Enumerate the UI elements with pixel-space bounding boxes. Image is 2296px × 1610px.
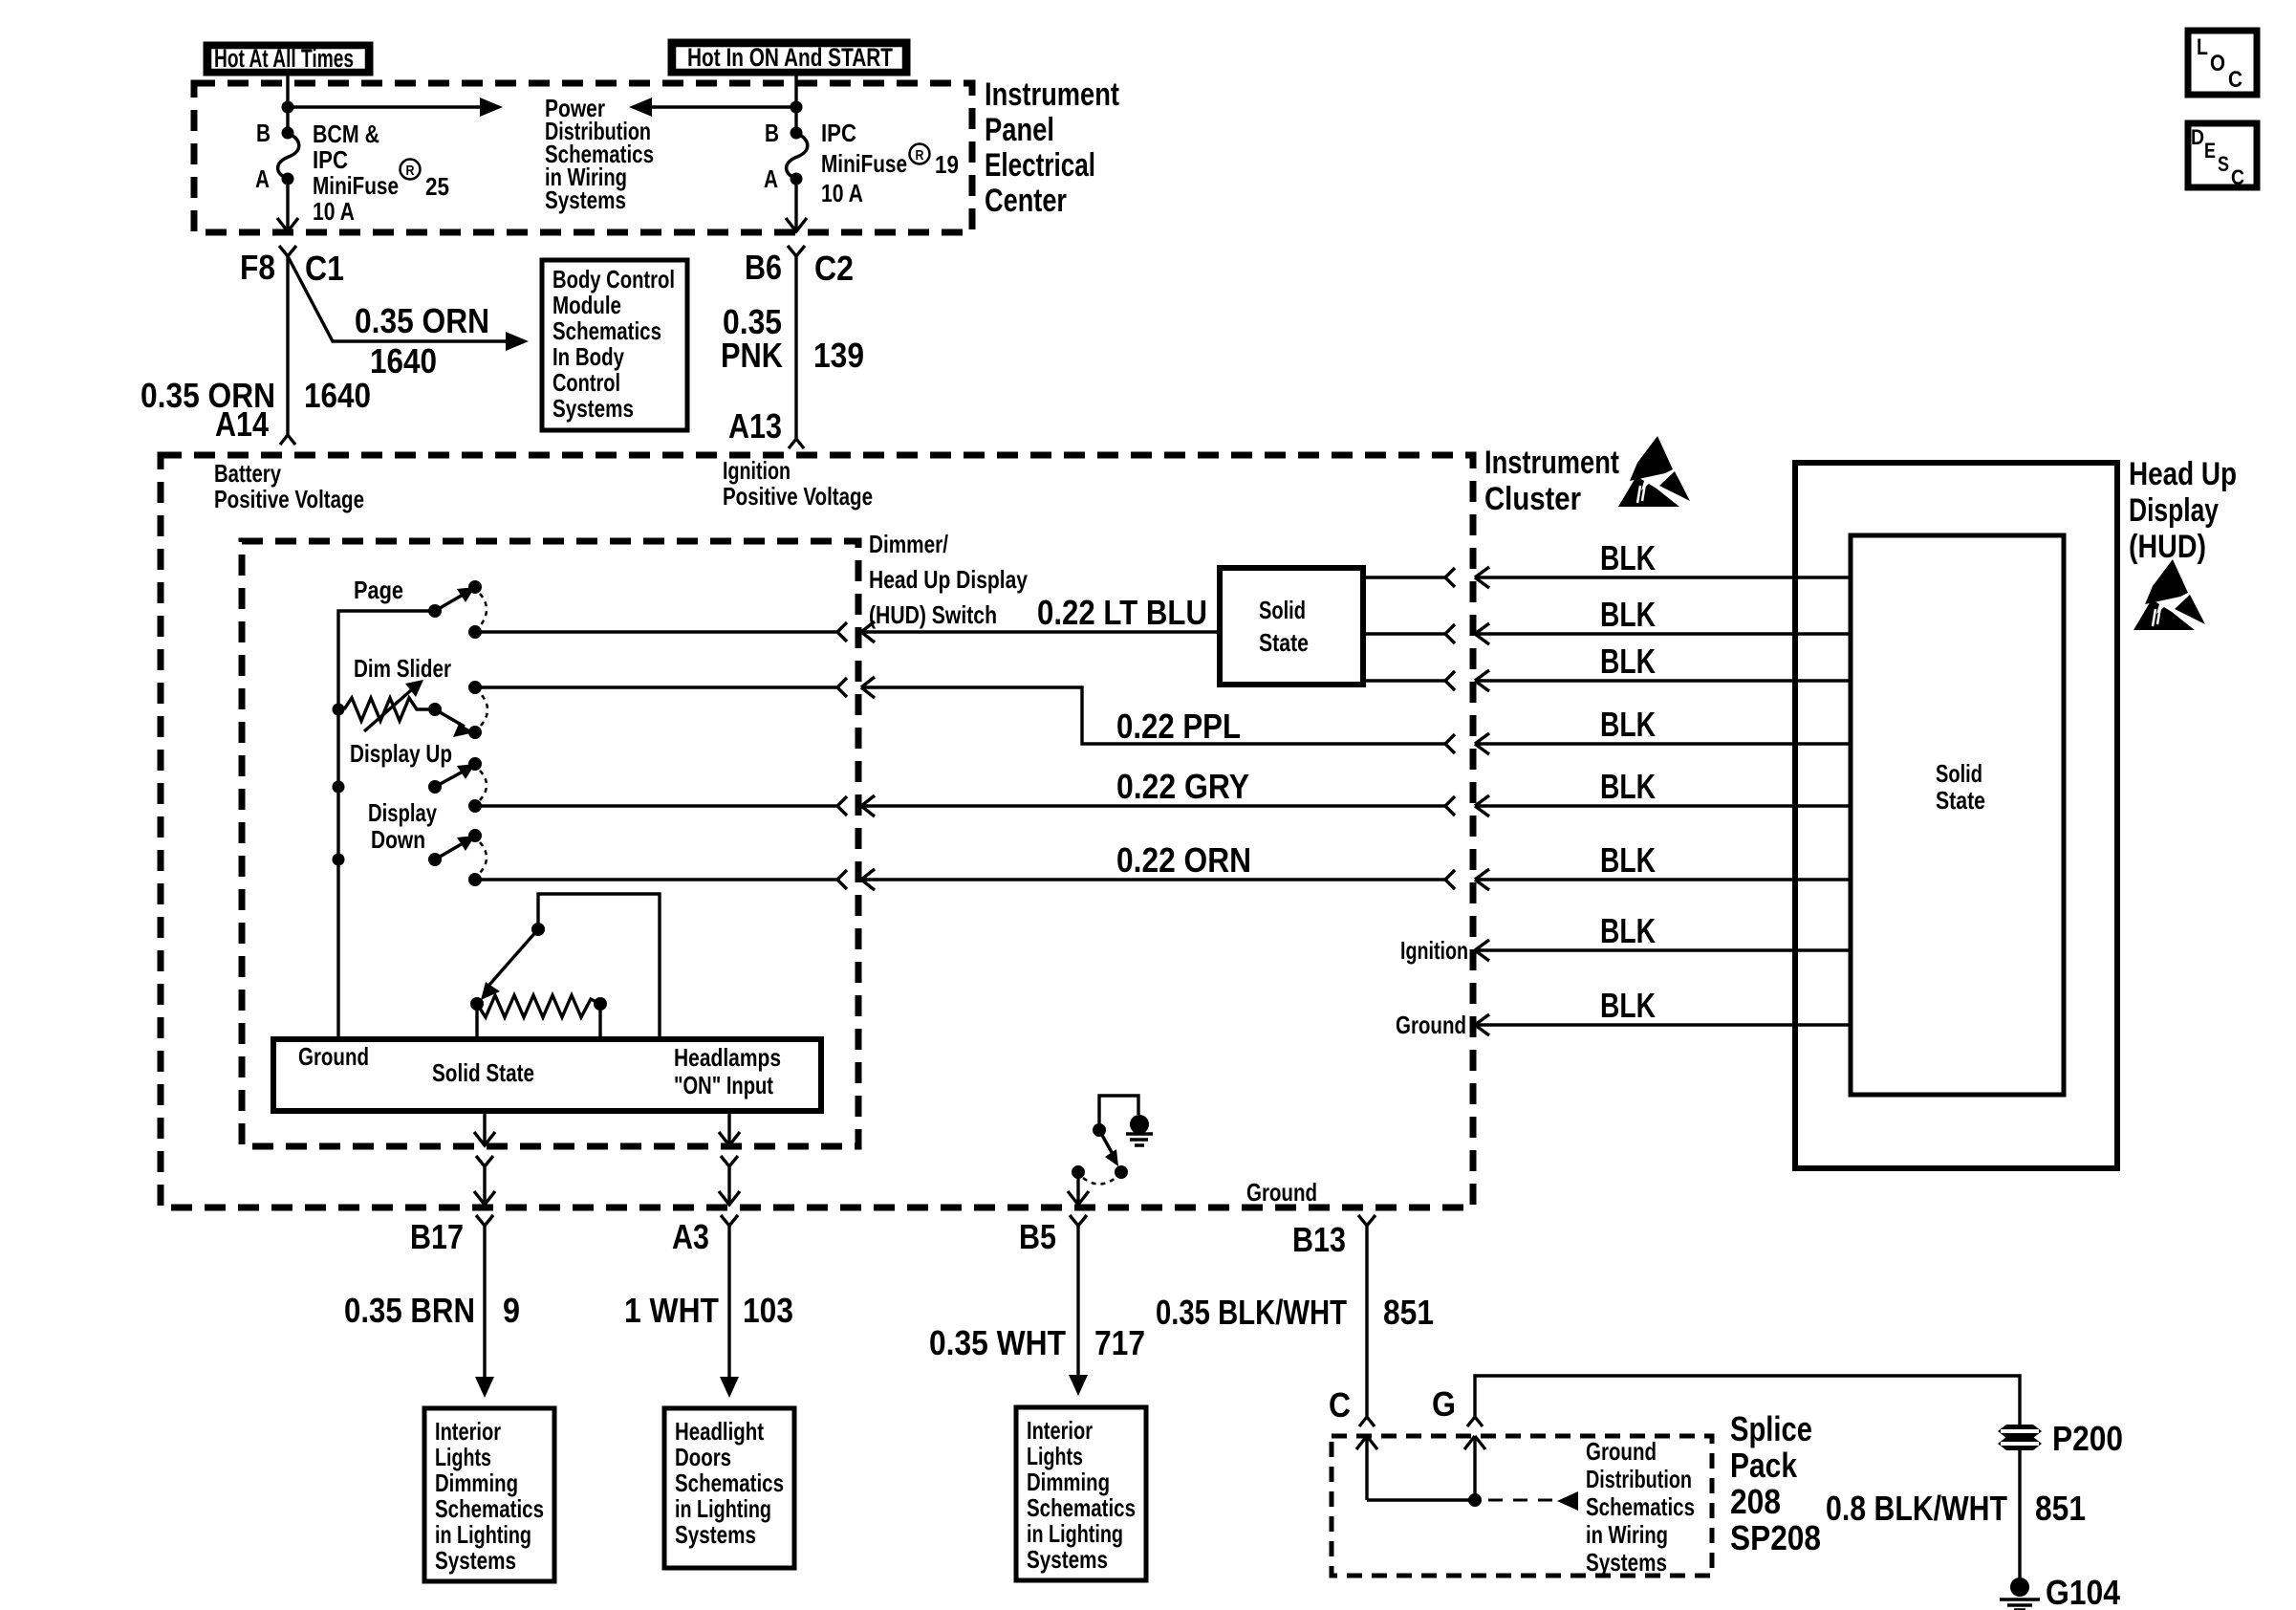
svg-text:139: 139 <box>813 336 864 375</box>
node: ignition feed junction <box>791 101 803 114</box>
svg-text:D: D <box>2191 125 2204 149</box>
svg-text:C2: C2 <box>814 249 854 288</box>
svg-text:Ground: Ground <box>298 1042 369 1071</box>
svg-text:MiniFuse: MiniFuse <box>313 171 399 200</box>
svg-text:PNK: PNK <box>721 336 783 375</box>
wire: 0.35 PNK 139 (B6 to A13) <box>789 256 804 448</box>
svg-text:0.22 LT BLU: 0.22 LT BLU <box>1037 593 1207 632</box>
svg-text:C: C <box>2228 67 2242 93</box>
svg-text:Center: Center <box>985 183 1067 219</box>
svg-text:A: A <box>255 164 270 193</box>
svg-text:Systems: Systems <box>435 1546 516 1575</box>
svg-text:C: C <box>1329 1385 1351 1425</box>
svg-text:Systems: Systems <box>1586 1548 1667 1577</box>
svg-text:Down: Down <box>371 825 425 854</box>
svg-text:Positive Voltage: Positive Voltage <box>214 485 364 513</box>
wire: headlamps ON bracket <box>538 894 660 1039</box>
svg-text:0.22 GRY: 0.22 GRY <box>1116 767 1249 806</box>
node: headlamps switch pivot <box>531 923 545 936</box>
svg-text:B: B <box>765 119 779 147</box>
wire: G branch up and over to P200 <box>1467 1376 2020 1426</box>
svg-text:Ignition: Ignition <box>723 456 791 485</box>
svg-text:Solid: Solid <box>1259 596 1306 624</box>
svg-text:Dimmer/: Dimmer/ <box>869 530 948 558</box>
box: Solid State (instrument cluster) <box>1220 568 1363 685</box>
node: bus junction at display up <box>333 781 345 794</box>
wire: A3 drop to headlight doors box <box>721 1215 738 1379</box>
connector F8/C1 fork <box>279 246 296 256</box>
svg-text:0.8 BLK/WHT: 0.8 BLK/WHT <box>1826 1489 2007 1528</box>
switch: Page <box>354 576 487 639</box>
box: Interior Lights Dimming Schematics in Lighting Systems (right) <box>1016 1407 1146 1580</box>
svg-text:Solid State: Solid State <box>432 1058 534 1087</box>
svg-text:Ground: Ground <box>1586 1437 1657 1466</box>
wire: solid state to cluster connector row 1 <box>1363 568 1455 587</box>
svg-text:E: E <box>2204 139 2216 163</box>
svg-text:Interior: Interior <box>435 1417 501 1446</box>
svg-text:Cluster: Cluster <box>1484 481 1581 517</box>
wire: switch supply bus <box>338 611 435 1039</box>
svg-text:A13: A13 <box>728 406 782 446</box>
icon: ESD symbol (instrument cluster) <box>1618 436 1690 507</box>
svg-text:In Body: In Body <box>552 342 624 371</box>
svg-text:BLK: BLK <box>1600 911 1656 950</box>
wire/arrow: feed to Power Distribution note (right fuse) <box>650 105 796 108</box>
switch arm: headlamps ON wiper <box>489 929 538 985</box>
svg-text:Dimming: Dimming <box>1027 1468 1110 1496</box>
svg-text:in Lighting: in Lighting <box>435 1520 531 1549</box>
wire/arrow: feed to Power Distribution note (left fuse) <box>288 105 482 108</box>
label: Dimmer/ Head Up Display (HUD) Switch <box>869 530 1028 629</box>
svg-text:SP208: SP208 <box>1730 1518 1821 1557</box>
svg-text:G: G <box>1432 1384 1456 1424</box>
dashed box: Dimmer / Head Up Display (HUD) Switch <box>242 541 858 1146</box>
svg-text:0.22 ORN: 0.22 ORN <box>1116 840 1251 880</box>
wire: display down output to switch connector <box>475 870 847 889</box>
svg-text:(HUD): (HUD) <box>2129 529 2206 565</box>
svg-text:Schematics: Schematics <box>675 1469 784 1497</box>
wire/arrow: headlamps output (A3) at switch box boundary <box>719 1111 740 1145</box>
wire: 0.22 GRY <box>861 767 1455 816</box>
svg-text:B5: B5 <box>1019 1217 1056 1256</box>
svg-text:Headlamps: Headlamps <box>674 1043 781 1072</box>
wire: battery feed from Hot At All Times <box>286 73 289 133</box>
dashed box: Instrument Panel Electrical Center <box>194 83 972 232</box>
svg-text:F8: F8 <box>240 248 275 287</box>
wire/arrow: C into splice pack <box>1356 1436 1377 1500</box>
svg-text:in Lighting: in Lighting <box>1027 1519 1123 1548</box>
label: Splice Pack 208 SP208 <box>1730 1409 1821 1557</box>
box: HUD Solid State <box>1851 535 2064 1095</box>
svg-text:Splice: Splice <box>1730 1409 1812 1448</box>
box: Head Up Display outer housing <box>1795 463 2117 1168</box>
svg-text:R: R <box>406 163 415 179</box>
potentiometer: dimmer resistor <box>470 995 607 1039</box>
icon: ESD symbol (HUD) <box>2134 559 2205 630</box>
svg-text:0.35 ORN: 0.35 ORN <box>355 301 489 340</box>
svg-text:Systems: Systems <box>545 185 626 214</box>
connector fork: B13 <box>1358 1215 1375 1426</box>
svg-text:in Wiring: in Wiring <box>1586 1520 1668 1549</box>
svg-text:Dim Slider: Dim Slider <box>354 654 451 683</box>
label: 0.35 BLK/WHT 851 <box>1156 1293 1434 1332</box>
svg-text:BLK: BLK <box>1600 595 1656 634</box>
svg-text:19: 19 <box>935 150 959 179</box>
legend: LOC box <box>2188 31 2257 95</box>
label box: Hot In ON And START <box>671 42 907 73</box>
wire: BLK row 2 <box>1475 623 1851 644</box>
svg-text:BLK: BLK <box>1600 642 1656 681</box>
wire/arrow: ground output (B17) at switch box boundary <box>474 1111 495 1145</box>
svg-text:B13: B13 <box>1292 1220 1346 1259</box>
node: bus junction at dim slider <box>333 704 345 716</box>
svg-text:Lights: Lights <box>1027 1442 1083 1470</box>
svg-text:Instrument: Instrument <box>985 76 1119 113</box>
svg-text:G104: G104 <box>2046 1573 2120 1610</box>
svg-text:10 A: 10 A <box>821 179 863 207</box>
svg-text:Battery: Battery <box>214 459 281 488</box>
svg-text:Systems: Systems <box>675 1520 756 1549</box>
svg-text:R: R <box>916 147 924 163</box>
fuse F25: BCM & IPC MiniFuse 25 10 A <box>255 119 449 226</box>
label: 1 WHT 103 <box>624 1291 793 1330</box>
svg-text:Control: Control <box>552 368 620 397</box>
svg-text:Electrical: Electrical <box>985 147 1095 184</box>
wire: 0.22 LT BLU (switch to solid state) <box>861 593 1220 642</box>
svg-text:L: L <box>2197 34 2208 60</box>
wire: 0.35 ORN 1640 (F8 to A14) <box>280 256 295 445</box>
svg-text:1640: 1640 <box>370 341 437 381</box>
svg-text:Dimming: Dimming <box>435 1469 518 1497</box>
label: 0.35 WHT 717 <box>929 1323 1145 1362</box>
svg-text:103: 103 <box>743 1291 793 1330</box>
legend: DESC box <box>2188 123 2257 189</box>
svg-text:BLK: BLK <box>1600 840 1656 880</box>
wire: BLK row 8 (Ground) <box>1475 1014 1851 1035</box>
svg-text:0.35 BLK/WHT: 0.35 BLK/WHT <box>1156 1293 1347 1332</box>
wire: solid state to cluster connector row 2 <box>1363 624 1455 643</box>
svg-text:Panel: Panel <box>985 112 1054 148</box>
svg-text:B6: B6 <box>745 248 782 287</box>
switch: Display Down <box>368 798 487 886</box>
svg-text:Hot At All Times: Hot At All Times <box>214 44 354 73</box>
svg-text:IPC: IPC <box>821 119 856 147</box>
wire/arrow: fuse 19 output to IPEC boundary <box>786 179 807 231</box>
note: Power Distribution Schematics in Wiring Systems <box>545 94 654 214</box>
connector B6/C2 fork <box>788 246 805 256</box>
svg-text:Interior: Interior <box>1027 1416 1093 1445</box>
wire: BLK row 3 <box>1475 670 1851 691</box>
svg-text:"ON" Input: "ON" Input <box>674 1071 773 1099</box>
label box: Hot At All Times <box>206 44 370 73</box>
svg-text:BLK: BLK <box>1600 986 1656 1025</box>
wire: B5 drop to interior lights box <box>1070 1215 1087 1377</box>
svg-text:Display Up: Display Up <box>350 739 452 768</box>
svg-text:1640: 1640 <box>304 376 371 415</box>
svg-text:Doors: Doors <box>675 1443 731 1471</box>
label: Battery Positive Voltage <box>214 459 364 513</box>
svg-text:A14: A14 <box>215 404 269 444</box>
title: Instrument Panel Electrical Center <box>985 76 1119 219</box>
dashed box: Instrument Cluster <box>161 455 1473 1207</box>
node: battery feed junction <box>282 101 294 114</box>
svg-text:0.35 BRN: 0.35 BRN <box>344 1291 475 1330</box>
svg-text:Systems: Systems <box>1027 1545 1108 1574</box>
svg-text:C: C <box>2231 165 2244 189</box>
note: Ground Distribution Schematics in Wiring Systems <box>1586 1437 1695 1577</box>
connector: P200 grommet <box>1998 1425 2042 1450</box>
wire/arrow: fuse 25 output to IPEC boundary <box>277 179 298 231</box>
svg-text:BLK: BLK <box>1600 705 1656 744</box>
svg-text:9: 9 <box>503 1291 520 1330</box>
node: bus junction at display down <box>333 854 345 866</box>
svg-text:Head Up: Head Up <box>2129 456 2237 492</box>
svg-text:0.22 PPL: 0.22 PPL <box>1116 707 1241 746</box>
wire: solid state to cluster connector row 3 <box>1363 671 1455 690</box>
svg-text:A3: A3 <box>672 1217 709 1256</box>
wire: branch 0.35 ORN 1640 to BCM <box>288 256 508 341</box>
svg-text:B: B <box>256 119 271 147</box>
svg-text:P200: P200 <box>2052 1419 2123 1458</box>
svg-text:IPC: IPC <box>313 145 348 174</box>
svg-text:208: 208 <box>1730 1482 1781 1521</box>
svg-text:Headlight: Headlight <box>675 1417 764 1446</box>
svg-text:Display: Display <box>368 798 437 827</box>
svg-text:0.35 WHT: 0.35 WHT <box>929 1323 1066 1362</box>
svg-text:Ground: Ground <box>1246 1178 1317 1207</box>
svg-text:25: 25 <box>425 172 449 201</box>
svg-text:BLK: BLK <box>1600 767 1656 806</box>
wire: display up output to switch connector <box>475 796 847 816</box>
svg-text:Schematics: Schematics <box>435 1494 544 1523</box>
svg-text:BCM &: BCM & <box>313 120 379 148</box>
svg-text:Distribution: Distribution <box>1586 1465 1692 1493</box>
box: Headlight Doors Schematics in Lighting Systems <box>664 1408 794 1568</box>
wire: 0.22 PPL (switch to cluster connector) <box>861 677 1455 753</box>
wire: dim slider output to switch connector <box>475 678 847 697</box>
svg-text:(HUD) Switch: (HUD) Switch <box>869 600 997 629</box>
wire: page output to switch connector <box>475 622 847 642</box>
connector fork: B17 inside cluster <box>474 1156 495 1205</box>
svg-text:Schematics: Schematics <box>1586 1492 1695 1521</box>
svg-text:Module: Module <box>552 291 621 319</box>
title: Instrument Cluster <box>1484 445 1619 517</box>
box: Body Control Module Schematics In Body Control Systems <box>542 260 687 430</box>
wire: ignition feed from Hot In ON And START <box>794 73 797 133</box>
wire: BLK row 4 <box>1475 733 1851 754</box>
dashed box: Splice Pack SP208 <box>1332 1436 1712 1576</box>
svg-text:BLK: BLK <box>1600 538 1656 577</box>
title: Head Up Display (HUD) <box>2129 456 2237 565</box>
node: splice junction <box>1468 1493 1482 1507</box>
svg-text:State: State <box>1259 628 1309 657</box>
svg-text:Lights: Lights <box>435 1443 491 1471</box>
svg-text:Body Control: Body Control <box>552 265 675 294</box>
fuse F19: IPC MiniFuse 19 10 A <box>764 119 959 207</box>
svg-text:C1: C1 <box>305 249 344 288</box>
switch: interior lights ground (B5) with ground symbol <box>1068 1096 1153 1205</box>
wire: 0.8 BLK/WHT 851 to ground <box>2018 1448 2021 1579</box>
potentiometer: Dim Slider <box>344 654 487 739</box>
box: dimmer Solid State module <box>273 1039 821 1111</box>
switch: Display Up <box>350 739 487 813</box>
svg-text:O: O <box>2210 51 2225 76</box>
svg-text:1 WHT: 1 WHT <box>624 1291 719 1330</box>
svg-text:B17: B17 <box>410 1217 464 1256</box>
svg-text:717: 717 <box>1094 1323 1145 1362</box>
wire: BLK row 1 (cluster to HUD) <box>1475 567 1851 588</box>
svg-text:851: 851 <box>1383 1293 1434 1332</box>
svg-text:Ground: Ground <box>1396 1011 1466 1039</box>
svg-text:MiniFuse: MiniFuse <box>821 149 907 178</box>
svg-text:Solid: Solid <box>1936 759 1982 788</box>
svg-text:Systems: Systems <box>552 394 634 423</box>
svg-text:Instrument: Instrument <box>1484 445 1619 481</box>
svg-text:Schematics: Schematics <box>1027 1493 1136 1522</box>
svg-text:Hot In ON And START: Hot In ON And START <box>687 43 893 72</box>
wire: 0.22 ORN <box>861 840 1455 890</box>
ground: G104 <box>2000 1577 2040 1610</box>
svg-text:Pack: Pack <box>1730 1446 1798 1485</box>
box: Interior Lights Dimming Schematics in Lighting Systems (left) <box>424 1408 554 1581</box>
wire: B17 drop to interior lights box <box>476 1215 493 1379</box>
label: 0.35 BRN 9 <box>344 1291 520 1330</box>
wire: BLK row 5 <box>1475 795 1851 816</box>
svg-text:Display: Display <box>2129 492 2219 529</box>
svg-text:Page: Page <box>354 576 403 604</box>
connector fork: A3 inside cluster <box>719 1156 740 1205</box>
wire: BLK row 7 (Ignition) <box>1475 940 1851 961</box>
svg-text:10 A: 10 A <box>313 197 355 226</box>
svg-text:Ignition: Ignition <box>1400 936 1468 965</box>
svg-text:State: State <box>1936 786 1985 815</box>
svg-text:in Lighting: in Lighting <box>675 1494 771 1523</box>
label: Ignition Positive Voltage <box>723 456 873 511</box>
svg-text:S: S <box>2218 152 2229 176</box>
svg-text:Schematics: Schematics <box>552 316 661 345</box>
svg-text:Head Up Display: Head Up Display <box>869 565 1028 594</box>
label: 0.8 BLK/WHT 851 <box>1826 1489 2086 1528</box>
wire/arrow: G into splice pack <box>1464 1436 1485 1500</box>
svg-text:A: A <box>764 164 778 193</box>
wire: BLK row 6 <box>1475 869 1851 890</box>
svg-text:Positive Voltage: Positive Voltage <box>723 482 873 511</box>
wire: dashed stub to ground distribution note <box>1488 1499 1552 1502</box>
svg-text:851: 851 <box>2035 1489 2086 1528</box>
wire: splice bus <box>1367 1498 1475 1501</box>
